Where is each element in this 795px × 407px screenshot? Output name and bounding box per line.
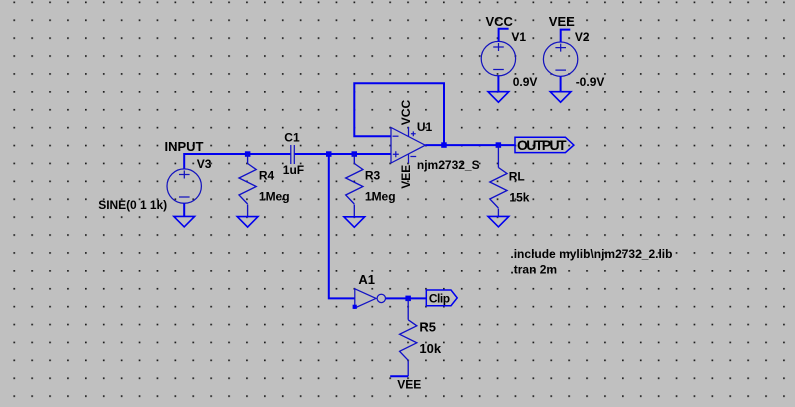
wire output net	[425, 144, 515, 146]
svg-text:VEE: VEE	[399, 165, 413, 189]
ground below R3	[344, 217, 365, 228]
svg-text:R4: R4	[259, 169, 275, 183]
svg-text:njm2732_S: njm2732_S	[417, 158, 480, 172]
node junction feedback/output	[441, 142, 447, 148]
svg-text:VEE: VEE	[549, 14, 575, 29]
svg-text:0.9V: 0.9V	[513, 75, 538, 89]
wire V2 bottom stub	[560, 76, 562, 91]
wire input net (V3 to opamp +)	[184, 154, 391, 169]
voltage source V3	[167, 169, 201, 203]
svg-text:1uF: 1uF	[283, 163, 304, 177]
svg-text:10k: 10k	[419, 341, 441, 356]
svg-text:VCC: VCC	[399, 100, 413, 126]
svg-text:U1: U1	[417, 120, 433, 134]
svg-text:V1: V1	[511, 30, 526, 44]
svg-text:1Meg: 1Meg	[365, 190, 396, 204]
resistor R5	[400, 298, 417, 376]
capacitor C1	[291, 145, 295, 164]
voltage source V2	[543, 42, 577, 76]
buffer A1	[355, 289, 386, 308]
ground below V2	[550, 92, 571, 103]
svg-text:.tran 2m: .tran 2m	[510, 263, 557, 277]
wire V3 bottom stub	[183, 203, 185, 216]
svg-text:R5: R5	[419, 320, 436, 335]
svg-text:R3: R3	[365, 169, 381, 183]
svg-text:.include mylib\njm2732_2.lib: .include mylib\njm2732_2.lib	[510, 247, 672, 261]
pin marker (A1 unconnected)	[353, 305, 357, 309]
svg-text:A1: A1	[358, 272, 375, 287]
resistor RL	[490, 145, 507, 216]
svg-text:VEE: VEE	[397, 378, 421, 392]
node junction RL/output	[496, 142, 502, 148]
svg-text:Clip: Clip	[429, 292, 450, 306]
wire feedback loop	[354, 83, 444, 145]
ground below R4	[237, 217, 258, 228]
svg-text:V3: V3	[197, 157, 212, 171]
op-amp U1	[391, 127, 425, 163]
net flag VEE (V2 top)	[561, 30, 571, 42]
node junction R5/Clip	[405, 296, 411, 302]
wire V1 bottom stub	[497, 76, 499, 92]
svg-text:OUTPUT: OUTPUT	[517, 137, 567, 153]
svg-text:-0.9V: -0.9V	[576, 75, 605, 89]
port flag OUTPUT	[515, 137, 574, 153]
resistor R3	[346, 154, 363, 217]
wire drop to A1 input	[329, 154, 355, 298]
svg-text:V2: V2	[575, 30, 590, 44]
svg-text:1Meg: 1Meg	[259, 190, 290, 204]
svg-text:SINE(0 1 1k): SINE(0 1 1k)	[98, 198, 167, 212]
port flag Clip	[426, 290, 457, 306]
net flag VEE (R5 bottom)	[390, 375, 408, 377]
voltage source V1	[481, 41, 515, 75]
ground below RL	[488, 216, 509, 227]
ground below V1	[488, 92, 509, 103]
node junction C1/A1 drop	[326, 151, 332, 157]
ground below V3	[174, 216, 195, 227]
svg-text:INPUT: INPUT	[165, 139, 204, 154]
node junction R4/input	[245, 151, 251, 157]
svg-text:15k: 15k	[509, 190, 529, 204]
svg-text:VCC: VCC	[486, 14, 514, 29]
net flag VCC (V1 top)	[499, 29, 509, 42]
wire A1 output to Clip	[386, 297, 427, 299]
node junction R3/opamp input	[352, 151, 358, 157]
resistor R4	[239, 154, 256, 217]
svg-text:RL: RL	[509, 170, 525, 184]
svg-text:C1: C1	[284, 131, 300, 145]
